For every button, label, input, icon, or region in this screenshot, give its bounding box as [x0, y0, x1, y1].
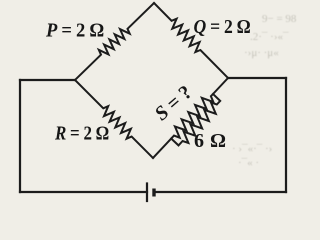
- svg-text:·›μ· ·μ«: ·›μ· ·μ«: [244, 47, 279, 59]
- battery cell: short thick plate: [152, 189, 155, 197]
- svg-text:6 Ω: 6 Ω: [194, 130, 227, 152]
- svg-text:R = 2 Ω: R = 2 Ω: [54, 123, 109, 145]
- wire: bottom right segment from battery: [154, 191, 286, 193]
- wire: left node to left edge: [20, 79, 75, 81]
- svg-text:.2·¯ ·›«¯: .2·¯ ·›«¯: [250, 31, 289, 43]
- wire: bottom left segment to battery: [20, 191, 147, 193]
- wire: right edge vertical: [285, 78, 287, 192]
- svg-text:P = 2 Ω: P = 2 Ω: [45, 20, 104, 42]
- resistor S (S=?), upper branch right node to bottom node: [153, 78, 228, 158]
- resistor 6 ohm, lower parallel branch: [171, 94, 220, 145]
- resistor R (2 ohm), arm left node to bottom node: [75, 80, 153, 158]
- svg-text:S = ?: S = ?: [151, 81, 197, 125]
- svg-text:9− = 98: 9− = 98: [262, 13, 297, 25]
- svg-text:·¯« ·: ·¯« ·: [238, 157, 259, 169]
- svg-text:· ›¯«·¯ ·›: · ›¯«·¯ ·›: [232, 143, 272, 155]
- resistor P (2 ohm), arm top node to left node: [75, 3, 154, 80]
- decorative faint bleed-through (not labeled components): [232, 13, 297, 169]
- svg-text:Q = 2 Ω: Q = 2 Ω: [194, 16, 251, 38]
- wire: right edge to right node: [228, 77, 286, 79]
- battery cell: long plate: [146, 184, 148, 202]
- resistor Q (2 ohm), arm top node to right node: [154, 3, 228, 78]
- wire: left edge vertical: [19, 80, 21, 192]
